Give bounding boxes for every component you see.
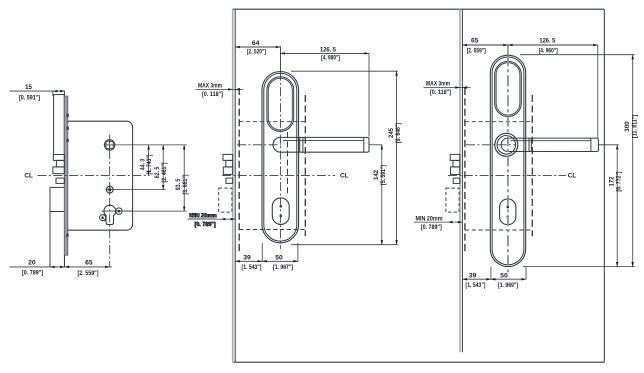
hidden faceplate line behind door edge	[464, 88, 466, 252]
dimension 50 [1.969in] right view	[498, 272, 518, 289]
svg-text:MAX 3mm: MAX 3mm	[198, 83, 222, 90]
door leading edge (middle view) double line	[233, 9, 236, 362]
svg-text:[0. 789"]: [0. 789"]	[194, 221, 215, 228]
svg-text:[1. 543"]: [1. 543"]	[466, 282, 486, 289]
svg-text:65: 65	[471, 38, 479, 45]
svg-text:50: 50	[500, 272, 508, 279]
top aperture oval right view	[495, 61, 522, 116]
extension lines right side	[114, 145, 187, 211]
dimension 50 [1.967in] plate width	[273, 254, 293, 270]
svg-text:[2. 559"]: [2. 559"]	[78, 270, 99, 277]
bottom extension lines (middle view)	[262, 243, 298, 261]
svg-text:MAX 3mm: MAX 3mm	[426, 81, 450, 88]
dimension 300 [11.811in] plate length	[624, 55, 638, 267]
hidden lock case side line (dashed)	[288, 95, 306, 236]
door panel outline	[233, 9, 605, 362]
latch/deadbolt protrusions at door edge	[450, 154, 460, 183]
dimension 65 [2.559in]	[462, 38, 597, 138]
handle backplate outline (right view)	[490, 55, 525, 266]
lock case body outline	[68, 121, 133, 230]
svg-text:[2. 461"]: [2. 461"]	[161, 163, 168, 183]
hidden lock case side line right view (dashed)	[531, 95, 533, 236]
svg-text:[6. 772"]: [6. 772"]	[616, 172, 623, 192]
bottom extension lines (right view)	[491, 267, 526, 280]
dimension 39 [1.543in] right view	[462, 272, 526, 289]
handle axis centerline (middle view)	[237, 144, 281, 146]
note MIN 20mm [0.789in] cylinder projection	[188, 213, 236, 229]
svg-text:[2. 559"]: [2. 559"]	[467, 48, 486, 55]
dimension 126.5 [4.960in]	[539, 38, 558, 55]
euro cylinder profile	[100, 205, 133, 224]
handle rose circles	[495, 133, 518, 156]
note MAX 3mm [0.118in] door gap	[196, 83, 244, 98]
dimension 172 [6.772in]	[609, 145, 623, 267]
svg-text:20: 20	[28, 260, 36, 267]
lock case front edge bar	[64, 96, 68, 255]
svg-text:245: 245	[388, 128, 395, 138]
svg-text:[0. 118"]: [0. 118"]	[430, 89, 451, 96]
extension lines right-side dims	[520, 55, 635, 267]
dimension 142 [5.591in]	[373, 145, 387, 245]
dimension 62.5 [2.461in]	[154, 145, 168, 190]
svg-text:[2. 520"]: [2. 520"]	[247, 48, 266, 55]
svg-text:64: 64	[252, 40, 260, 47]
svg-text:[1. 543"]: [1. 543"]	[242, 264, 262, 271]
faceplate fixing screws	[67, 114, 69, 237]
vertical centerline through lock	[109, 135, 111, 267]
horizontal centerline CL	[222, 173, 348, 180]
svg-text:CL: CL	[340, 173, 349, 180]
svg-text:[0. 789"]: [0. 789"]	[22, 270, 43, 277]
svg-text:[9. 646"]: [9. 646"]	[395, 123, 402, 143]
svg-text:CL: CL	[568, 173, 577, 180]
vertical centerline of plate	[279, 48, 281, 249]
spindle hole (square follower)	[104, 140, 114, 150]
svg-text:[4. 960"]: [4. 960"]	[539, 48, 558, 55]
left view: mortise lock case side elevation	[0, 0, 1, 1]
dimension 126.5 [4.980in] handle length	[280, 47, 369, 137]
bottom extension lines	[64, 255, 66, 267]
dimension 64 [2.520in] backset to handle	[235, 40, 280, 71]
dimension 245 [9.646in] plate length	[388, 71, 402, 245]
svg-text:39: 39	[243, 254, 251, 261]
hidden lock case top/bottom lines right view	[465, 122, 532, 230]
hidden cylinder body (dashed)	[219, 188, 232, 212]
latch follower hole	[106, 185, 114, 193]
dimension 39 [1.543in]	[235, 254, 298, 270]
top thumb-slide aperture oval	[267, 77, 294, 132]
extension lines for height dimensions	[291, 71, 398, 245]
svg-text:300: 300	[624, 121, 631, 132]
dimension 44.3 [1.743in]	[139, 145, 153, 176]
latch/deadbolt protrusions at door edge	[223, 154, 233, 183]
lever handle (middle view)	[273, 137, 369, 152]
svg-text:[3. 681"]: [3. 681"]	[182, 175, 189, 195]
svg-text:[5. 591"]: [5. 591"]	[380, 165, 387, 185]
svg-text:[0. 789"]: [0. 789"]	[421, 224, 442, 231]
dimension 15 [0.591in] faceplate depth	[9, 84, 65, 101]
cylinder aperture oval	[272, 198, 289, 225]
svg-text:[11. 811"]: [11. 811"]	[631, 115, 638, 138]
svg-text:[0. 118"]: [0. 118"]	[202, 91, 223, 98]
dimension 93.5 [3.681in]	[175, 145, 189, 211]
note MIN 20mm [0.789in]	[189, 212, 218, 228]
hidden faceplate line behind door edge	[238, 88, 240, 252]
svg-text:126. 5: 126. 5	[320, 47, 336, 54]
svg-text:[4. 980"]: [4. 980"]	[321, 55, 340, 62]
horizontal centerline CL right view	[448, 173, 576, 180]
lever handle (right view)	[501, 138, 598, 151]
svg-text:CL: CL	[24, 173, 33, 180]
hidden cylinder body (dashed)	[446, 188, 459, 212]
svg-text:MIN 20mm: MIN 20mm	[416, 216, 443, 223]
handle axis centerline (right view)	[466, 144, 516, 146]
note MIN 20mm [0.789in] cylinder projection	[414, 216, 462, 232]
svg-text:65: 65	[85, 260, 93, 267]
cylinder aperture oval right view	[500, 199, 516, 225]
lock faceplate (side)	[50, 95, 64, 267]
svg-text:15: 15	[25, 84, 32, 91]
svg-text:126. 5: 126. 5	[539, 38, 555, 45]
note MAX 3mm [0.118in] door gap	[424, 81, 471, 96]
dimension 20 [0.789in]	[9, 260, 112, 277]
svg-text:39: 39	[469, 272, 477, 279]
vertical centerline right plate	[507, 45, 509, 273]
svg-text:[1. 743"]: [1. 743"]	[146, 155, 153, 175]
handle backplate outline (middle view)	[262, 72, 299, 243]
dimension 65 [2.559in] backset	[78, 260, 99, 277]
hidden lock case top/bottom lines	[239, 122, 305, 230]
svg-text:172: 172	[609, 176, 616, 186]
svg-text:50: 50	[275, 254, 283, 261]
door leading edge (right view) double line	[460, 9, 463, 352]
svg-text:[1. 967"]: [1. 967"]	[273, 264, 293, 271]
svg-text:[0. 591"]: [0. 591"]	[19, 94, 40, 101]
svg-text:[1. 969"]: [1. 969"]	[498, 282, 518, 289]
svg-text:MIN 20mm: MIN 20mm	[189, 213, 216, 220]
latch bolt and deadbolt protrusions	[53, 155, 64, 184]
svg-text:142: 142	[373, 170, 380, 180]
horizontal centerline CL	[24, 173, 149, 180]
